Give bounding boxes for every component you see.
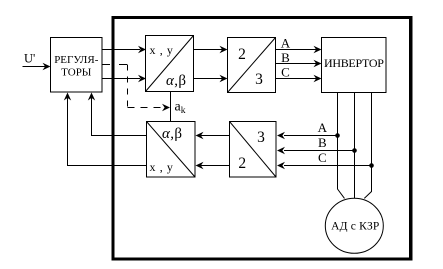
wire: regulator output row 1 — [102, 49, 140, 51]
svg-text:АД с КЗР: АД с КЗР — [331, 221, 379, 233]
svg-text:ak: ak — [175, 99, 186, 116]
svg-text:2: 2 — [238, 46, 246, 63]
system boundary thick frame — [113, 18, 411, 259]
svg-text:ТОРЫ: ТОРЫ — [61, 67, 92, 79]
svg-text:В: В — [318, 135, 327, 150]
block: coordinate converter alpha,beta to x,y (bottom) — [147, 122, 196, 178]
svg-text:α,β: α,β — [166, 73, 186, 89]
wire: top converter output row1 to 2/3 block — [194, 49, 223, 51]
svg-text:3: 3 — [257, 129, 265, 146]
svg-text:С: С — [318, 150, 327, 165]
wire: motor phase line 3 (right) — [364, 93, 371, 199]
block: inverter (ИНВЕРТОР) — [322, 38, 387, 93]
svg-text:С: С — [281, 65, 290, 80]
junction dot phase C — [369, 163, 374, 168]
junction dot phase A — [335, 133, 340, 138]
block: regulators (РЕГУЛЯ-ТОРЫ) U1 — [51, 38, 103, 93]
svg-text:В: В — [281, 50, 290, 65]
wire: 3/2 output row1 to alpha,beta converter — [201, 135, 230, 137]
svg-text:2: 2 — [238, 155, 246, 172]
wire: U' input line — [23, 66, 46, 68]
wire: phase A tap to 3/2 converter — [284, 135, 338, 137]
wire: 3/2 output row2 to alpha,beta converter — [201, 165, 230, 167]
motor: induction motor АД с КЗР M1 — [325, 198, 383, 253]
block: 3-to-2 phase converter — [230, 122, 277, 178]
wire: regulator output row 3 — [102, 78, 140, 80]
dashed control wire: vertical segment — [127, 65, 129, 108]
svg-text:ИНВЕРТОР: ИНВЕРТОР — [324, 56, 384, 70]
svg-text:РЕГУЛЯ-: РЕГУЛЯ- — [54, 54, 99, 66]
wire: phase A to inverter — [276, 49, 317, 51]
dashed control wire: horizontal segment to a_k arrow — [128, 107, 162, 109]
wire: phase B to inverter — [276, 63, 317, 65]
svg-text:U': U' — [24, 51, 35, 65]
wire: phase B tap to 3/2 converter — [284, 150, 355, 152]
svg-text:α,β: α,β — [162, 126, 182, 142]
svg-text:А: А — [318, 120, 328, 135]
wire: phase C to inverter — [276, 78, 317, 80]
block: coordinate converter x,y to alpha,beta (top) — [146, 36, 194, 92]
svg-text:x , y: x , y — [150, 160, 174, 174]
wire: motor phase line 1 (left) — [338, 93, 345, 199]
dashed control wire: horizontal segment from regulators — [102, 64, 128, 66]
block: 2-to-3 phase converter — [228, 38, 276, 93]
wire: phase C tap to 3/2 converter — [284, 165, 372, 167]
connector a_k between converters — [170, 92, 172, 122]
junction dot phase B — [352, 148, 357, 153]
svg-text:3: 3 — [255, 71, 263, 88]
wire: motor phase line 2 (middle) — [354, 93, 356, 199]
feedback wire 2: alpha,beta output to regulators — [68, 98, 147, 166]
svg-text:А: А — [281, 35, 291, 50]
wire: top converter output row3 to 2/3 block — [194, 78, 223, 80]
feedback wire 1: alpha,beta output to regulators — [92, 98, 147, 136]
svg-text:x , y: x , y — [150, 43, 174, 57]
